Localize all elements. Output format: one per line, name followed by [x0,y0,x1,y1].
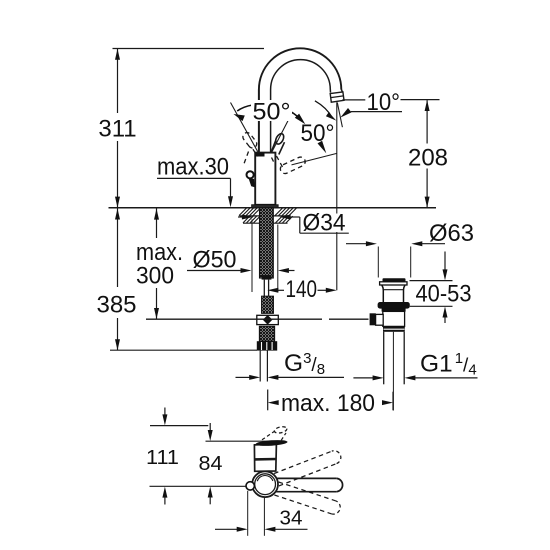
diameter 50 extension lines [251,220,253,293]
handle hub dark mark [255,153,264,157]
dimension 84 [209,423,211,431]
top view faucet body circles [252,471,278,497]
dimension 311 top reference line [113,48,265,50]
angle 50 first: left arc arrow [237,105,252,111]
top view handle dashed tip [274,426,288,434]
supply hose knurled segment 3 [259,326,274,341]
pop-up rod horizontal [146,318,322,320]
top view handle body [254,444,276,471]
dimension 40-53 [410,280,453,282]
top view spout dashed lower position [274,495,331,514]
spout aerator [330,92,344,102]
top view bottom reference line [150,485,247,487]
spout outlet tube [341,89,342,92]
max.30 leader vertical + arrow at deck [230,178,232,197]
top view spout capsule solid [272,477,337,479]
svg-text:max.30: max.30 [157,154,229,181]
dimension max.300 vertical line [156,208,158,238]
svg-text:140: 140 [286,276,318,303]
handle lever dashed right position [279,156,307,175]
pop-up rod knob on body [247,171,254,178]
drain center line [392,332,394,411]
top view pop-up rod circle [246,482,254,490]
arrow 385 top at countertop [115,209,120,220]
svg-text:G11/4: G11/4 [420,350,477,379]
supply hose knurled segment 2 [262,296,274,313]
svg-text:max. 180: max. 180 [281,390,375,417]
svg-text:Ø50: Ø50 [193,247,237,274]
svg-text:Ø34: Ø34 [303,210,346,237]
top view handle pad ellipse [255,439,287,447]
svg-text:50°: 50° [253,99,291,126]
svg-text:40-53: 40-53 [416,281,472,308]
10 deg tilted reference line [337,103,342,128]
G3/8 nipple tube [259,351,261,382]
faucet base plate [252,205,279,208]
diameter 63 extension lines [377,247,379,278]
svg-text:50°: 50° [301,120,335,147]
mounting locknut hatched [243,222,288,224]
10 deg second pointer [340,108,351,118]
dimension max. 180 [267,390,269,411]
supply connection nut G3/8 [257,341,277,350]
arrow 311 bottom at countertop [115,197,120,208]
angle 50 first: right ray [272,112,293,153]
threaded shank knurled [260,208,274,278]
angle 50 first: left ray [231,103,258,152]
arrow max300 bottom [154,308,159,319]
10 deg arc arrow [315,101,332,118]
svg-text:311: 311 [98,116,136,143]
dimension line 311/385 vertical [117,49,119,113]
drain body [383,311,405,326]
svg-text:111: 111 [146,446,179,469]
mounting washer hatched left [240,215,291,217]
drain flange top [383,278,406,282]
svg-text:300: 300 [136,263,174,290]
svg-text:208: 208 [408,145,448,172]
svg-text:385: 385 [96,292,136,319]
385 bottom reference line [110,349,257,351]
handle lever solid position [271,138,277,153]
dimension G1 1/4 [353,377,373,379]
top view spout dashed upper position [279,464,337,486]
dimension 140 [267,288,278,293]
countertop deck line [109,207,437,209]
svg-text:G3/8: G3/8 [284,350,325,378]
angle 50 second: ray to outlet line [292,153,337,165]
dimension 34 [247,491,249,536]
drain o-ring [378,302,410,309]
diameter 63 dimension [346,243,366,245]
rod clamp knob [370,313,376,325]
label diameter 34 with leader [299,217,301,233]
svg-text:34: 34 [280,507,303,530]
dimension 208 vertical [426,100,428,143]
label 50 deg first [251,100,292,121]
arrow 311 top [115,49,120,60]
pop-up rod tee joint [257,315,279,324]
svg-text:84: 84 [199,452,223,475]
dimension G3/8 [236,376,251,378]
dimension arrows diameter 34 [242,215,253,220]
drain flange body [380,282,407,285]
10 deg leader and label [342,99,365,101]
faucet body [255,153,275,205]
svg-text:Ø63: Ø63 [429,220,474,247]
drain neck [382,285,383,302]
handle lever dashed left position [241,131,258,150]
angle 50 second: pointer arrow [318,141,327,154]
faucet spout riser tube [258,90,260,153]
angle 50 first: right arc arrow [283,108,301,120]
dimension 111 [164,408,166,416]
arrow 385 bottom [115,339,120,350]
drain tailpipe [383,332,385,385]
spout outlet vertical reference line [336,102,338,290]
top view 111 reference line [150,425,208,427]
rod clamp box [376,314,384,325]
arrow max300 top [154,209,159,220]
supply hose stem [262,275,272,279]
drain lower band [383,326,405,331]
top view 84 reference line [206,440,281,442]
faucet gooseneck spout arc [259,48,341,89]
